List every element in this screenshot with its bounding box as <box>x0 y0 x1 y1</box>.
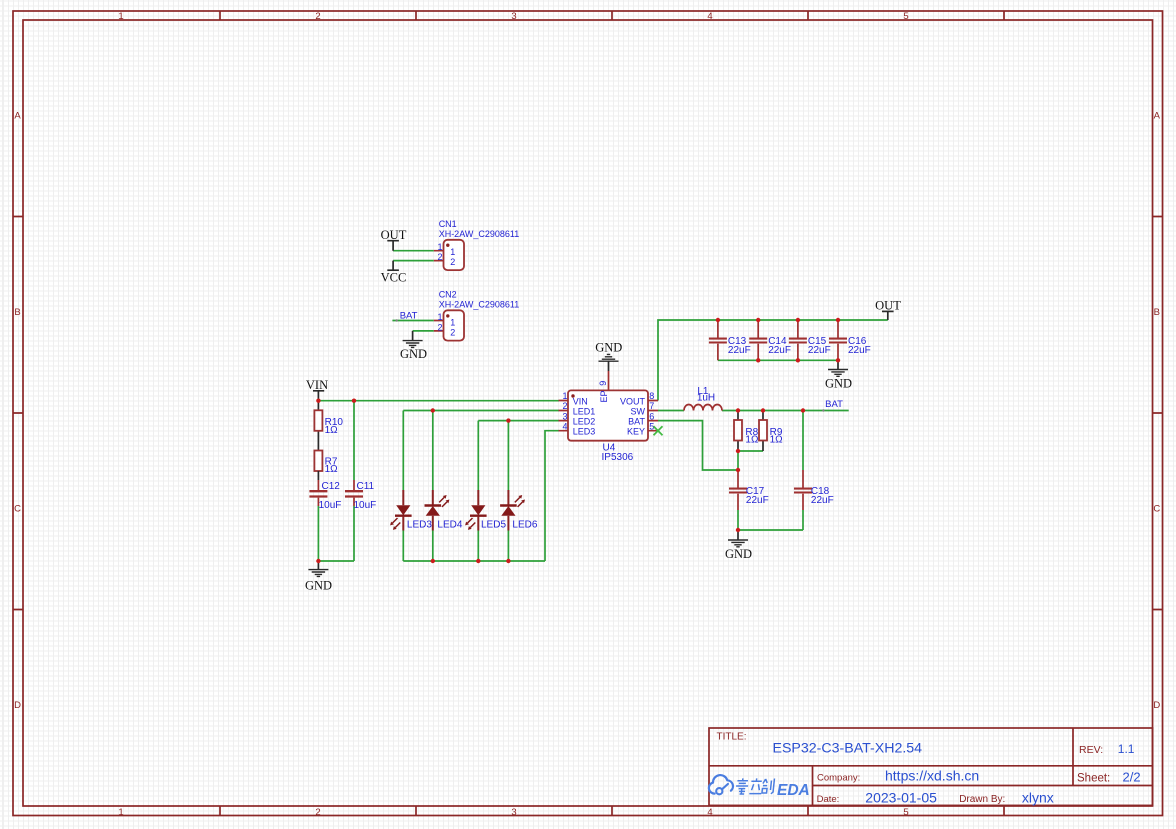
svg-text:1: 1 <box>437 312 442 322</box>
svg-text:B: B <box>1154 307 1160 318</box>
connector CN2 <box>434 289 519 340</box>
svg-text:3: 3 <box>562 411 567 421</box>
resistor R7 <box>314 451 338 476</box>
svg-text:1uH: 1uH <box>697 393 715 404</box>
junction OUT bus C14 <box>756 318 760 322</box>
svg-text:22uF: 22uF <box>848 345 871 356</box>
junction SW at R9 <box>761 408 765 412</box>
capacitor C18 <box>794 470 834 510</box>
svg-text:22uF: 22uF <box>811 495 834 506</box>
capacitor C11 <box>345 480 376 511</box>
wire C17 bottom <box>737 510 739 530</box>
title block outline <box>709 728 1153 805</box>
svg-text:Drawn By:: Drawn By: <box>959 794 1005 805</box>
ground at EP (inverted) <box>595 340 622 371</box>
junction at C17 top <box>736 468 740 472</box>
row ticks right <box>1153 217 1163 610</box>
capacitor C14 <box>749 320 791 360</box>
wire C11 bottom <box>353 506 355 561</box>
svg-text:LED5: LED5 <box>481 520 506 531</box>
wire LED2 drop to LED6 <box>507 421 509 490</box>
wire LED5 cathode drop <box>477 531 479 562</box>
wire CN2 pin1 BAT <box>392 320 433 322</box>
wire LED1 drop to LED4 <box>432 411 434 491</box>
svg-text:LED6: LED6 <box>512 520 537 531</box>
svg-text:https://xd.sh.cn: https://xd.sh.cn <box>885 767 979 783</box>
svg-text:6: 6 <box>649 411 654 421</box>
svg-text:GND: GND <box>595 340 622 354</box>
junction LED2 bus at LED6 <box>506 418 510 422</box>
LED LED5 <box>465 490 506 531</box>
capacitor C12 <box>309 471 341 511</box>
svg-text:IP5306: IP5306 <box>602 452 634 463</box>
junction cap gnd bus C16 <box>836 358 840 362</box>
svg-text:VIN: VIN <box>306 378 328 392</box>
svg-text:C: C <box>14 504 21 515</box>
svg-text:1: 1 <box>437 242 442 252</box>
wire GND bus left <box>318 560 354 562</box>
junction dots <box>316 318 840 563</box>
svg-text:VCC: VCC <box>381 270 407 284</box>
svg-text:OUT: OUT <box>875 298 901 312</box>
netflag OUT at CN1 <box>381 228 407 251</box>
svg-text:1Ω: 1Ω <box>745 435 759 446</box>
svg-text:XH-2AW_C2908611: XH-2AW_C2908611 <box>439 229 520 239</box>
wire BAT pin6 route <box>658 421 738 470</box>
netlabel BAT at SW <box>822 399 843 411</box>
resistor R8 <box>734 411 759 452</box>
svg-text:XH-2AW_C2908611: XH-2AW_C2908611 <box>439 299 520 309</box>
svg-text:1: 1 <box>450 318 455 328</box>
svg-text:LED3: LED3 <box>573 427 596 437</box>
svg-text:GND: GND <box>825 376 852 390</box>
junction VIN at R10 <box>316 399 320 403</box>
wire LED3 cathode drop <box>402 531 404 562</box>
ground bottom left <box>305 561 332 592</box>
wire C17 C18 gnd bus <box>738 529 803 531</box>
svg-text:1: 1 <box>118 807 123 818</box>
svg-text:22uF: 22uF <box>728 345 751 356</box>
svg-text:GND: GND <box>305 578 332 592</box>
junction OUT bus C16 <box>836 318 840 322</box>
svg-text:1Ω: 1Ω <box>770 435 784 446</box>
no-connect X at KEY pin 5 <box>654 426 663 435</box>
svg-text:VIN: VIN <box>573 396 588 406</box>
svg-text:C11: C11 <box>357 481 375 492</box>
svg-text:VOUT: VOUT <box>620 396 646 406</box>
svg-text:EP: EP <box>599 390 609 402</box>
logo JLCEDA <box>709 775 733 794</box>
wire CN1 pin1 OUT <box>393 250 434 252</box>
junction below R8 <box>736 449 740 453</box>
wire LED2 drop to LED5 <box>477 421 479 490</box>
wire CN1 pin2 VCC <box>393 260 434 262</box>
svg-text:22uF: 22uF <box>746 495 769 506</box>
svg-text:10uF: 10uF <box>354 500 377 511</box>
row ticks left <box>13 217 23 610</box>
svg-text:4: 4 <box>562 421 567 431</box>
junction at C17 gnd <box>736 528 740 532</box>
svg-text:BAT: BAT <box>628 417 645 427</box>
svg-text:ESP32-C3-BAT-XH2.54: ESP32-C3-BAT-XH2.54 <box>773 741 923 757</box>
wire cap bottom bus C13-C16 <box>718 359 838 361</box>
svg-text:2: 2 <box>562 401 567 411</box>
svg-text:2: 2 <box>437 252 442 262</box>
wire L1 to BAT <box>722 410 849 412</box>
junction cap gnd bus C15 <box>796 358 800 362</box>
svg-text:LED1: LED1 <box>573 406 596 416</box>
svg-text:A: A <box>1154 111 1161 122</box>
svg-text:5: 5 <box>903 807 908 818</box>
wire OUT flag stub <box>887 311 889 320</box>
wire C18 top drop <box>802 411 804 471</box>
svg-text:D: D <box>1153 700 1160 711</box>
netlabel BAT at CN2 <box>396 311 418 322</box>
inductor L1 <box>684 386 722 411</box>
svg-text:4: 4 <box>707 11 712 22</box>
svg-text:BAT: BAT <box>825 399 843 410</box>
svg-text:2023-01-05: 2023-01-05 <box>865 789 937 805</box>
junction cathode bus LED5 <box>476 559 480 563</box>
row letters left <box>14 111 21 712</box>
svg-text:2: 2 <box>437 322 442 332</box>
svg-text:A: A <box>14 111 21 122</box>
svg-text:8: 8 <box>649 391 654 401</box>
junction VIN at C11 <box>352 399 356 403</box>
svg-text:4: 4 <box>707 807 712 818</box>
connector CN1 <box>434 219 519 270</box>
wire C18 bottom <box>802 510 804 530</box>
column numbers bottom <box>118 807 908 818</box>
wire R8 junction drop <box>737 451 739 470</box>
wire LED1 drop to LED3 <box>402 411 404 491</box>
netflag VIN <box>306 378 328 401</box>
svg-text:REV:: REV: <box>1079 744 1103 756</box>
wire VOUT to OUT bus <box>658 320 888 401</box>
svg-text:OUT: OUT <box>381 228 407 242</box>
junction LED1 bus at LED4 <box>431 408 435 412</box>
svg-text:LED2: LED2 <box>573 417 596 427</box>
wire LED cathode bus <box>403 560 545 562</box>
column ticks top <box>220 11 1004 20</box>
fake CJK JiaLiChuang <box>735 778 749 794</box>
svg-text:SW: SW <box>631 406 646 416</box>
svg-text:1: 1 <box>562 391 567 401</box>
netflag OUT top right <box>875 298 901 312</box>
row letters right <box>1153 111 1160 712</box>
wire R8 R9 bottom link <box>738 450 763 452</box>
LED LED4 <box>425 490 463 531</box>
svg-text:3: 3 <box>511 11 516 22</box>
wire LED1 net bus <box>403 410 559 412</box>
svg-text:Date:: Date: <box>817 794 840 805</box>
svg-text:D: D <box>14 700 21 711</box>
wire LED2 net bus <box>478 420 559 422</box>
svg-text:22uF: 22uF <box>808 345 831 356</box>
svg-text:1: 1 <box>118 11 123 22</box>
capacitor C15 <box>789 320 831 360</box>
svg-text:C12: C12 <box>322 481 341 492</box>
ground at C17 C18 bus <box>725 530 752 561</box>
svg-text:1Ω: 1Ω <box>325 425 339 436</box>
capacitor C17 <box>729 470 769 510</box>
svg-text:1Ω: 1Ω <box>325 464 339 475</box>
svg-text:GND: GND <box>400 347 427 361</box>
svg-text:2: 2 <box>315 11 320 22</box>
svg-text:B: B <box>14 307 20 318</box>
column numbers top <box>118 11 908 22</box>
junction SW at C18 <box>801 408 805 412</box>
LED LED3 <box>390 490 432 531</box>
wire LED3 net from pin 4 <box>545 431 559 561</box>
wire LED6 cathode drop <box>507 531 509 562</box>
svg-text:CN2: CN2 <box>439 289 457 299</box>
column ticks bottom <box>220 806 1004 816</box>
svg-text:5: 5 <box>903 11 908 22</box>
junction cap gnd bus C14 <box>756 358 760 362</box>
capacitor C16 <box>829 320 871 360</box>
svg-text:LED3: LED3 <box>407 520 432 531</box>
svg-text:3: 3 <box>511 807 516 818</box>
svg-text:2: 2 <box>450 257 455 267</box>
svg-text:9: 9 <box>598 381 608 386</box>
wire C11 top drop <box>353 401 355 480</box>
svg-text:22uF: 22uF <box>768 345 791 356</box>
junction SW at R8 <box>736 408 740 412</box>
svg-text:TITLE:: TITLE: <box>717 732 747 743</box>
resistor R10 <box>314 401 343 451</box>
junction cathode bus LED4 <box>431 559 435 563</box>
ground at CN2 <box>400 331 427 361</box>
svg-text:1.1: 1.1 <box>1118 742 1135 756</box>
svg-text:CN1: CN1 <box>439 219 457 229</box>
svg-text:Sheet:: Sheet: <box>1077 773 1110 785</box>
svg-text:2: 2 <box>450 328 455 338</box>
junction OUT bus C15 <box>796 318 800 322</box>
wire SW to L1 <box>658 410 684 412</box>
junction OUT bus C13 <box>716 318 720 322</box>
svg-text:C: C <box>1153 504 1160 515</box>
wire VIN net horizontal <box>318 400 559 402</box>
wire LED4 cathode drop <box>432 531 434 562</box>
resistor R9 <box>759 411 783 452</box>
junction GND bottom left <box>316 559 320 563</box>
svg-text:1: 1 <box>450 247 455 257</box>
svg-text:EDA: EDA <box>777 782 810 799</box>
svg-text:xlynx: xlynx <box>1022 789 1054 805</box>
wire CN2 pin2 GND <box>413 330 434 332</box>
svg-text:BAT: BAT <box>400 311 418 322</box>
capacitor C13 <box>709 320 751 360</box>
svg-text:GND: GND <box>725 547 752 561</box>
ground at C16 <box>825 360 852 390</box>
junction cathode bus LED6 <box>506 559 510 563</box>
svg-text:KEY: KEY <box>627 427 645 437</box>
svg-text:2: 2 <box>315 807 320 818</box>
op chip U4 IP5306 <box>559 371 659 463</box>
svg-text:2/2: 2/2 <box>1123 770 1141 785</box>
netflag VCC at CN1 <box>381 261 407 285</box>
svg-text:Company:: Company: <box>817 772 860 783</box>
svg-text:7: 7 <box>649 401 654 411</box>
wire C12 bottom <box>317 506 319 561</box>
svg-text:LED4: LED4 <box>437 520 462 531</box>
LED LED6 <box>500 490 538 531</box>
svg-text:10uF: 10uF <box>319 500 342 511</box>
